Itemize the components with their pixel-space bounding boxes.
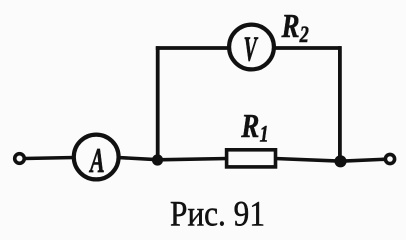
wire top branch: [156, 46, 341, 50]
wire ammeter to node A: [118, 158, 160, 160]
svg-text:A: A: [89, 142, 105, 180]
resistor R1: [227, 150, 276, 167]
node A junction: [152, 154, 163, 165]
svg-text:Рис. 91: Рис. 91: [170, 194, 265, 234]
svg-text:V: V: [244, 31, 259, 69]
wire right riser: [338, 46, 342, 162]
node B junction: [334, 155, 346, 167]
ammeter U-A: [74, 135, 119, 181]
svg-text:R2: R2: [281, 7, 309, 47]
wire resistor to node B: [275, 159, 342, 162]
wire left riser: [156, 46, 160, 160]
terminal right: [385, 154, 394, 163]
wire node A to resistor: [158, 159, 229, 160]
terminal left: [15, 154, 25, 164]
wire left lead: [24, 158, 75, 159]
wire node B to right terminal: [341, 159, 387, 161]
voltmeter U-V: [229, 25, 274, 70]
svg-text:R1: R1: [240, 107, 268, 147]
